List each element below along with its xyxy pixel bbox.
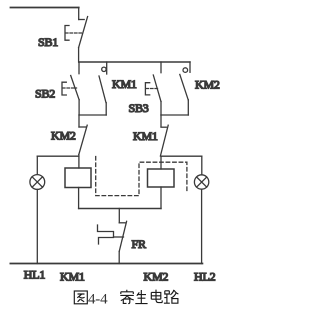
svg-text:KM2: KM2 [51,129,76,143]
wire junction to HL1 branch [37,155,79,157]
wire coil KM2 to bottom bus [78,188,80,209]
svg-text:SB1: SB1 [38,35,58,49]
char 生 [135,290,147,304]
svg-text:KM1: KM1 [60,270,85,284]
svg-text:SB2: SB2 [35,87,55,101]
coil KM2 [65,168,91,188]
wire bus2 right [161,114,188,116]
svg-text:KM2: KM2 [195,78,220,92]
wire top rail [11,7,79,9]
svg-text:KM2: KM2 [144,269,169,283]
contact KM2 (NC interlock) [79,115,87,155]
pushbutton SB2 (NO) [62,62,79,115]
pushbutton SB3 (NO) [145,62,161,115]
wire KM1 coil top [160,156,162,169]
contact KM1 (NC interlock) [160,115,168,156]
char 电 [151,290,162,303]
coil KM1 [148,169,175,187]
svg-text:FR: FR [132,237,146,251]
wire KM1 coil to bottom bus [160,187,162,209]
thermal contact FR (NC) [98,209,127,264]
wire bottom bus [79,208,161,210]
lamp HL2 [194,156,208,263]
contact KM2 (NO self-hold) [180,62,190,115]
svg-text:KM1: KM1 [112,77,137,91]
lamp HL1 [30,156,45,263]
wire HL2 branch [161,155,202,157]
caption 图4-4 寄生电路 [74,290,178,308]
pushbutton SB1 (NC) [65,8,88,63]
dashed parasitic circuit path [96,157,187,196]
svg-text:SB3: SB3 [129,101,149,115]
svg-text:4-4: 4-4 [88,292,108,308]
contact KM1 (NO self-hold) [99,62,107,115]
svg-text:HL2: HL2 [194,270,216,284]
char 寄 [120,290,134,304]
char 路 [164,290,179,303]
wire bus below SB1 [79,61,190,63]
svg-text:HL1: HL1 [24,268,46,282]
wire bottom rail [10,263,202,265]
wire bus2 left [79,114,106,116]
svg-text:KM1: KM1 [133,129,158,143]
wire down to KM2 coil [78,155,80,168]
char 图 [74,291,87,304]
